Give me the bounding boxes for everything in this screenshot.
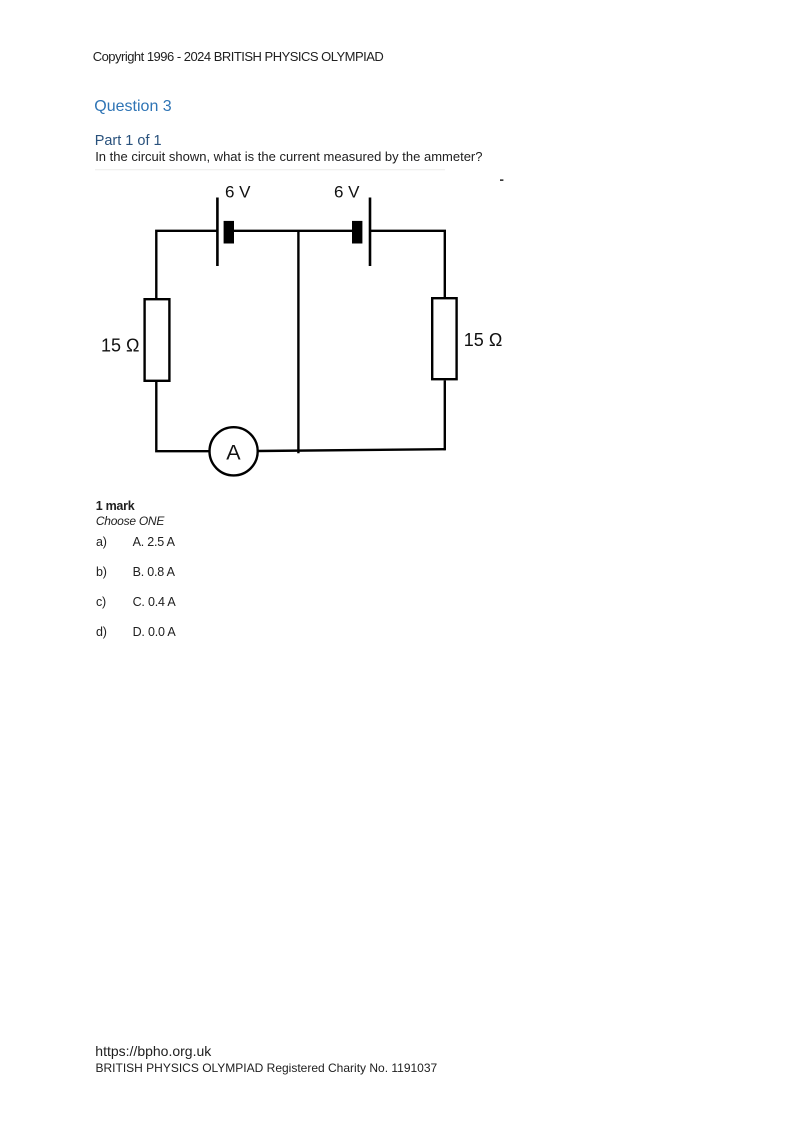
option a: [96, 536, 107, 549]
svg-text:15 Ω: 15 Ω: [101, 336, 139, 356]
wire: middle branch: [297, 231, 299, 453]
wire: ammeter to bottom-right corner: [258, 449, 445, 451]
battery V1 short plate: [224, 221, 234, 244]
option c: [96, 596, 106, 609]
wire: battery V1 to battery V2: [234, 230, 352, 232]
option d: [96, 626, 107, 639]
footer url: [95, 1044, 211, 1058]
battery V2 long plate: [369, 198, 372, 267]
picture top edge artifact: [95, 169, 445, 170]
svg-text:15 Ω: 15 Ω: [464, 330, 502, 350]
svg-text:6 V: 6 V: [225, 183, 251, 202]
svg-text:A: A: [226, 441, 241, 465]
stray dash artifact: [500, 179, 503, 181]
1 mark: [96, 500, 135, 513]
copyright header: [93, 50, 384, 63]
circuit schematic image: [0, 0, 794, 520]
battery V2 short plate: [352, 221, 362, 244]
question text: [95, 150, 482, 163]
wire: resistor R2 to bottom-right corner: [444, 381, 446, 451]
wire: resistor R1 to bottom-left corner to ammeter: [156, 381, 210, 451]
heading Part 1 of 1: [95, 134, 162, 149]
svg-text:6 V: 6 V: [334, 183, 360, 202]
ammeter A: [210, 427, 258, 475]
resistor R1: [145, 299, 170, 381]
resistor R2: [432, 298, 456, 379]
heading Question 3: [94, 99, 171, 115]
option b: [96, 566, 107, 579]
wire: battery V2 to top-right corner down to resistor R2: [370, 231, 445, 298]
footer charity line: [96, 1062, 438, 1074]
wire: top-left corner to battery V1: [156, 231, 217, 300]
Choose ONE: [96, 515, 164, 527]
battery V1 long plate: [216, 198, 219, 267]
